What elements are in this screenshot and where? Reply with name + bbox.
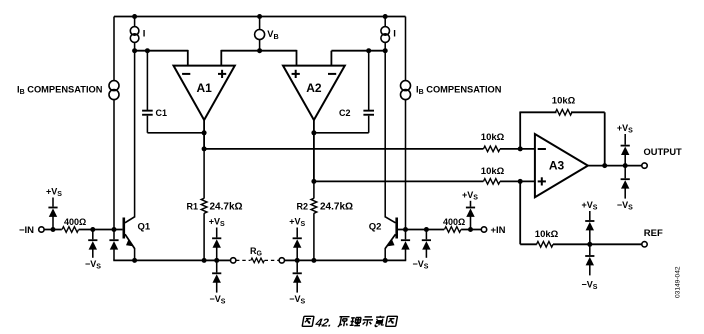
wire dashed RG left	[236, 259, 250, 261]
svg-text:OUTPUT: OUTPUT	[644, 147, 683, 157]
svg-text:10kΩ: 10kΩ	[481, 132, 505, 143]
diode clamp to +VS (RG left)	[216, 228, 218, 238]
diode clamp to -VS (right input)	[425, 230, 427, 240]
svg-text:−VS: −VS	[85, 259, 101, 271]
svg-text:R1: R1	[187, 201, 199, 211]
diode clamp to +VS (REF)	[589, 211, 591, 220]
wire left outer rail lower	[113, 100, 115, 230]
feedback loop wire	[519, 112, 521, 149]
wire clamp to RG pin left	[217, 259, 231, 261]
current source I (right)	[384, 17, 386, 27]
voltage source VB	[259, 17, 261, 30]
svg-text:I: I	[393, 28, 396, 39]
svg-text:C2: C2	[339, 108, 351, 118]
resistor 10k row1	[483, 146, 500, 152]
wire -IN to 400ohm	[44, 229, 62, 231]
wire R2 to Q2 emitter	[314, 259, 385, 261]
node R2 bottom junction	[311, 258, 316, 263]
wire A3 output	[588, 165, 642, 167]
terminal REF	[642, 242, 647, 247]
svg-text:−IN: −IN	[19, 225, 34, 236]
svg-text:Q1: Q1	[138, 222, 151, 233]
node A1 inverting-input junction	[132, 48, 137, 53]
node A2 output / C2 junction	[311, 130, 316, 135]
op-amp A3	[535, 134, 588, 197]
wire row1 A1-output to A3 10k	[204, 148, 483, 150]
wire A1 output to node	[203, 120, 205, 149]
resistor 10k REF	[537, 242, 554, 248]
terminal OUTPUT	[642, 163, 647, 168]
terminal RG right pin	[279, 258, 284, 263]
diode clamp to -VS (RG right)	[296, 260, 298, 272]
resistor R2 24.7k	[311, 198, 317, 213]
wire A1 output down to R1	[203, 149, 205, 199]
svg-text:−VS: −VS	[582, 280, 598, 292]
wire Q2 emitter row to right corner	[385, 259, 406, 261]
node VB row junction	[257, 48, 262, 53]
svg-text:+VS: +VS	[289, 216, 305, 228]
node Q1 emitter junction	[132, 258, 137, 263]
wire 400ohm to Q1 base	[79, 229, 123, 231]
resistor 10k feedback	[555, 110, 572, 116]
svg-text:−VS: −VS	[617, 200, 633, 212]
wire row2 A2-output to A3 10k	[314, 180, 484, 182]
node A3 inverting node	[518, 146, 523, 151]
svg-text:24.7kΩ: 24.7kΩ	[210, 201, 243, 212]
svg-text:+VS: +VS	[617, 123, 633, 135]
svg-text:Q2: Q2	[369, 222, 382, 233]
terminal RG left pin	[231, 258, 236, 263]
wire A2 inverting input	[330, 51, 332, 66]
wire left outer rail upper	[113, 17, 115, 81]
node C1 top junction	[145, 48, 150, 53]
wire right outer rail lower	[405, 100, 407, 230]
caption figure 42 (Chinese)	[302, 316, 314, 326]
wire clamp to R2	[297, 259, 314, 261]
svg-text:IB COMPENSATION: IB COMPENSATION	[17, 85, 103, 97]
node A1 output row1 junction	[202, 146, 207, 151]
svg-text:R2: R2	[297, 201, 309, 211]
wire REF resistor to terminal	[553, 243, 642, 245]
svg-text:A2: A2	[306, 81, 322, 95]
svg-text:400Ω: 400Ω	[443, 217, 465, 227]
node -VS clamp junction (right)	[424, 227, 429, 232]
svg-text:400Ω: 400Ω	[64, 217, 86, 227]
node VB top junction	[257, 14, 262, 19]
resistor RG	[251, 258, 265, 263]
op-amp A2	[283, 66, 345, 120]
wire A2 output to node	[313, 120, 315, 181]
svg-text:+VS: +VS	[209, 216, 225, 228]
node output feedback junction	[602, 163, 607, 168]
svg-text:10kΩ: 10kΩ	[552, 96, 576, 107]
diode Q1 base-emitter (left)	[113, 230, 115, 240]
wire VB row to noninverting inputs	[221, 50, 296, 52]
wire A1 inverting input	[135, 50, 188, 52]
node RG left clamp junction	[214, 258, 219, 263]
node R1 bottom junction	[202, 258, 207, 263]
svg-text:24.7kΩ: 24.7kΩ	[320, 201, 353, 212]
node A2 output row2 junction	[311, 179, 316, 184]
wire A3 + node down to REF resistor	[519, 181, 521, 244]
svg-text:03149-042: 03149-042	[675, 266, 682, 298]
terminal -IN	[39, 227, 44, 232]
svg-text:−VS: −VS	[413, 259, 429, 271]
resistor 400 ohm (left)	[62, 227, 79, 233]
wire RG pin to clamp (right)	[285, 259, 298, 261]
svg-text:−VS: −VS	[210, 294, 226, 306]
node -VS clamp junction (left)	[90, 227, 95, 232]
svg-text:A3: A3	[549, 159, 565, 173]
capacitor C1	[146, 51, 148, 110]
wire Q2 base to 400ohm	[398, 229, 444, 231]
capacitor C2	[368, 51, 370, 110]
svg-text:+IN: +IN	[491, 225, 506, 236]
svg-text:42.: 42.	[314, 317, 333, 329]
transistor Q2	[395, 218, 398, 239]
diode clamp to +VS (left input)	[52, 198, 54, 207]
resistor 10k row2	[483, 179, 500, 185]
svg-text:+VS: +VS	[582, 200, 598, 212]
node A1 output / C1 junction	[202, 130, 207, 135]
wire dashed RG right	[265, 259, 279, 261]
current source IB compensation (right)	[401, 81, 411, 91]
svg-text:IB COMPENSATION: IB COMPENSATION	[416, 85, 502, 97]
transistor Q1	[123, 218, 126, 239]
diode clamp to -VS (RG left)	[216, 260, 218, 272]
wire 400ohm to +IN	[461, 229, 481, 231]
resistor R1 24.7k	[201, 198, 207, 213]
svg-text:C1: C1	[156, 108, 168, 118]
node C2 top junction	[366, 48, 371, 53]
svg-text:A1: A1	[196, 81, 212, 95]
wire emitter row to R1	[135, 259, 205, 261]
current source IB compensation (left)	[109, 81, 119, 91]
diode clamp to +VS (right input)	[470, 201, 472, 207]
diode clamp to -VS (output)	[624, 166, 626, 179]
wire right outer rail upper	[405, 17, 407, 81]
diode clamp to +VS (output)	[624, 134, 626, 145]
node -IN clamp junction	[51, 227, 56, 232]
diode Q2 base-emitter (right)	[405, 230, 407, 240]
node RG right clamp junction	[295, 258, 300, 263]
svg-text:I: I	[143, 28, 146, 39]
op-amp A1	[174, 66, 235, 120]
node A3 noninverting node	[518, 179, 523, 184]
svg-text:RG: RG	[250, 246, 263, 258]
node output clamp junction	[623, 163, 628, 168]
diode clamp to -VS (left input)	[92, 230, 94, 240]
node IB rail / Q1 base junction	[112, 227, 117, 232]
svg-text:+VS: +VS	[462, 190, 478, 202]
current source I (left)	[134, 17, 136, 27]
node REF clamp junction	[587, 242, 592, 247]
svg-text:10kΩ: 10kΩ	[535, 229, 559, 240]
wire R1 to clamp column	[204, 259, 217, 261]
svg-text:10kΩ: 10kΩ	[481, 166, 505, 177]
diode clamp to +VS (RG right)	[296, 228, 298, 238]
terminal +IN	[481, 227, 486, 232]
node +IN clamp junction	[468, 227, 473, 232]
resistor 400 ohm (right)	[444, 227, 461, 233]
node right inner junction	[383, 48, 388, 53]
node top-right junction	[383, 14, 388, 19]
svg-text:+VS: +VS	[46, 186, 62, 198]
svg-text:−VS: −VS	[289, 294, 305, 306]
wire A2 output down to R2	[313, 181, 315, 198]
node Q2 emitter junction	[383, 258, 388, 263]
node IB rail / Q2 base junction	[403, 227, 408, 232]
wire top supply rail	[114, 16, 406, 18]
svg-text:REF: REF	[644, 228, 663, 239]
diode clamp to -VS (REF)	[589, 244, 591, 255]
node top-left junction	[132, 14, 137, 19]
svg-text:VB: VB	[267, 29, 278, 41]
